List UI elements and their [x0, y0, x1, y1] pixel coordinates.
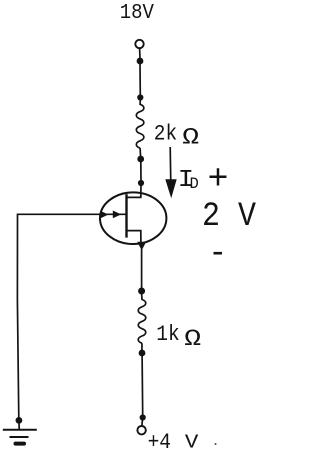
junction dot: [16, 417, 23, 424]
svg-text:2k: 2k: [154, 123, 177, 147]
svg-text:1k: 1k: [156, 323, 179, 347]
gate wire (horizontal): [17, 213, 125, 215]
svg-text:+4: +4: [148, 431, 171, 454]
wire: [141, 293, 143, 300]
junction dot: [138, 180, 144, 186]
wire: [140, 161, 142, 181]
wire (source to R2): [141, 249, 143, 288]
label minus sign: [214, 252, 223, 255]
junction dot: [139, 350, 146, 357]
junction dot: [138, 288, 145, 295]
wire: [141, 355, 144, 416]
terminal T1 (top, 18V): [135, 40, 143, 48]
svg-text:Ω: Ω: [182, 125, 199, 151]
transistor source lead: [127, 231, 141, 244]
gate arrowhead 2: [113, 211, 121, 219]
wire stub to ground: [18, 422, 20, 430]
svg-text:Ω: Ω: [184, 326, 201, 352]
source arrowhead (pointing down): [137, 242, 146, 251]
junction dot: [137, 94, 143, 100]
wire: [141, 343, 143, 351]
svg-text:V: V: [185, 433, 199, 454]
wire: [139, 99, 141, 105]
speck: [215, 443, 217, 445]
transistor Q1 JFET body: [100, 192, 166, 244]
junction dot: [137, 156, 144, 163]
svg-text:18V: 18V: [120, 0, 154, 24]
wire: [139, 63, 141, 96]
junction dot: [140, 414, 146, 420]
wire stub: [141, 419, 144, 426]
ground symbol: [3, 430, 37, 444]
junction dot: [137, 58, 144, 65]
wire: [139, 148, 142, 157]
resistor R1 2k ohm: [136, 104, 144, 148]
terminal T2 (bottom, +4V): [137, 426, 145, 434]
resistor R2 1k ohm: [138, 300, 146, 344]
current arrow ID: [169, 147, 172, 183]
wire (left vertical, gate to ground): [17, 214, 18, 419]
svg-text:+: +: [208, 160, 229, 200]
svg-text:D: D: [190, 175, 199, 193]
wire: [139, 49, 141, 59]
svg-text:2 V: 2 V: [202, 196, 257, 235]
transistor channel bar: [125, 194, 127, 237]
gate arrowhead 1: [100, 211, 109, 219]
wire (drain lead into transistor): [127, 185, 142, 197]
